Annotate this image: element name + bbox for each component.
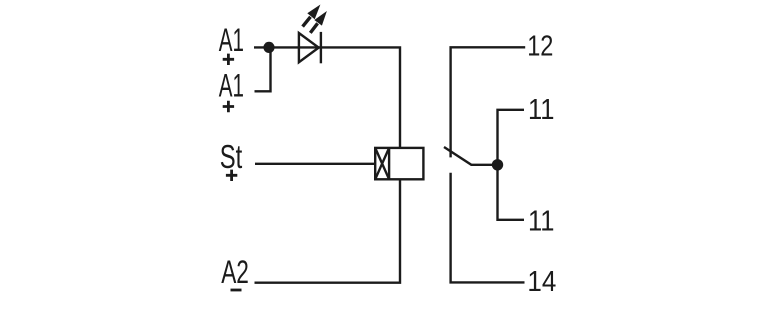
wire pole 12-14 upper segment with terminal 12	[451, 47, 526, 157]
wire common 11-11 with terminals	[498, 110, 525, 220]
svg-text:14: 14	[527, 266, 556, 298]
svg-text:11: 11	[528, 94, 555, 126]
wire A1 top to coil (node A1)	[254, 47, 400, 149]
plus under A1 top	[223, 54, 234, 65]
junction node 11 common	[492, 159, 503, 170]
wire pole 12-14 lower segment with terminal 14	[451, 173, 525, 283]
svg-text:11: 11	[528, 205, 555, 237]
relay coil X mark	[375, 148, 389, 179]
plus under St	[226, 170, 237, 181]
wire St to coil	[255, 163, 375, 165]
LED emission arrow 1	[303, 5, 321, 27]
minus under A2	[231, 289, 242, 292]
switch contact arm K1	[444, 147, 493, 165]
svg-text:A1: A1	[219, 68, 244, 104]
relay coil K1 box	[375, 148, 423, 179]
wire A2 to coil bottom	[255, 179, 401, 282]
LED D1 triangle	[299, 33, 319, 62]
junction node A1	[263, 42, 274, 53]
wire second A1 up to junction	[255, 47, 271, 91]
relay coil divider	[388, 148, 390, 179]
LED D1 cathode bar	[320, 32, 322, 63]
svg-text:12: 12	[527, 31, 553, 63]
svg-text:A2: A2	[221, 254, 249, 290]
svg-text:A1: A1	[219, 22, 244, 58]
plus under A1 second	[223, 101, 234, 112]
LED emission arrow 2	[310, 11, 327, 33]
